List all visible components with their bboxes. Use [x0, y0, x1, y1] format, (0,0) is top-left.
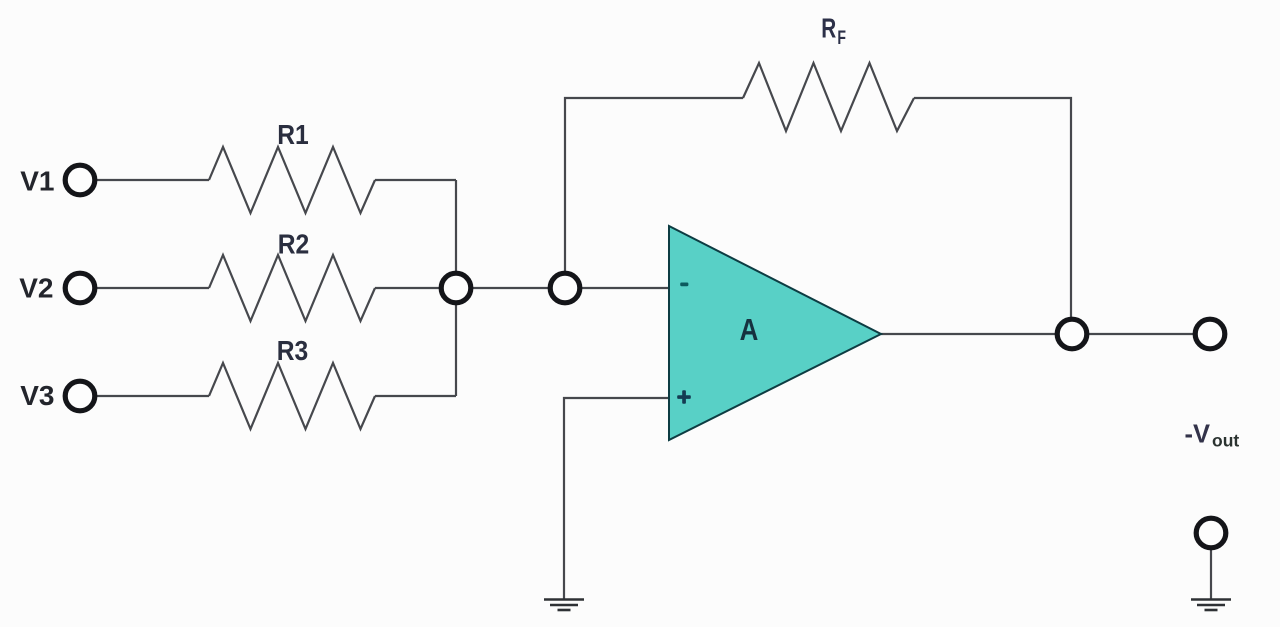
svg-text:out: out	[1212, 430, 1239, 450]
svg-text:F: F	[837, 27, 846, 49]
svg-text:V2: V2	[19, 273, 53, 304]
svg-text:R1: R1	[277, 119, 308, 151]
svg-text:-V: -V	[1185, 420, 1211, 448]
svg-text:V3: V3	[20, 380, 54, 411]
svg-text:R3: R3	[277, 335, 308, 367]
svg-text:R2: R2	[278, 228, 309, 260]
svg-text:A: A	[740, 312, 759, 346]
svg-text:V1: V1	[20, 166, 54, 197]
svg-text:R: R	[821, 14, 836, 45]
